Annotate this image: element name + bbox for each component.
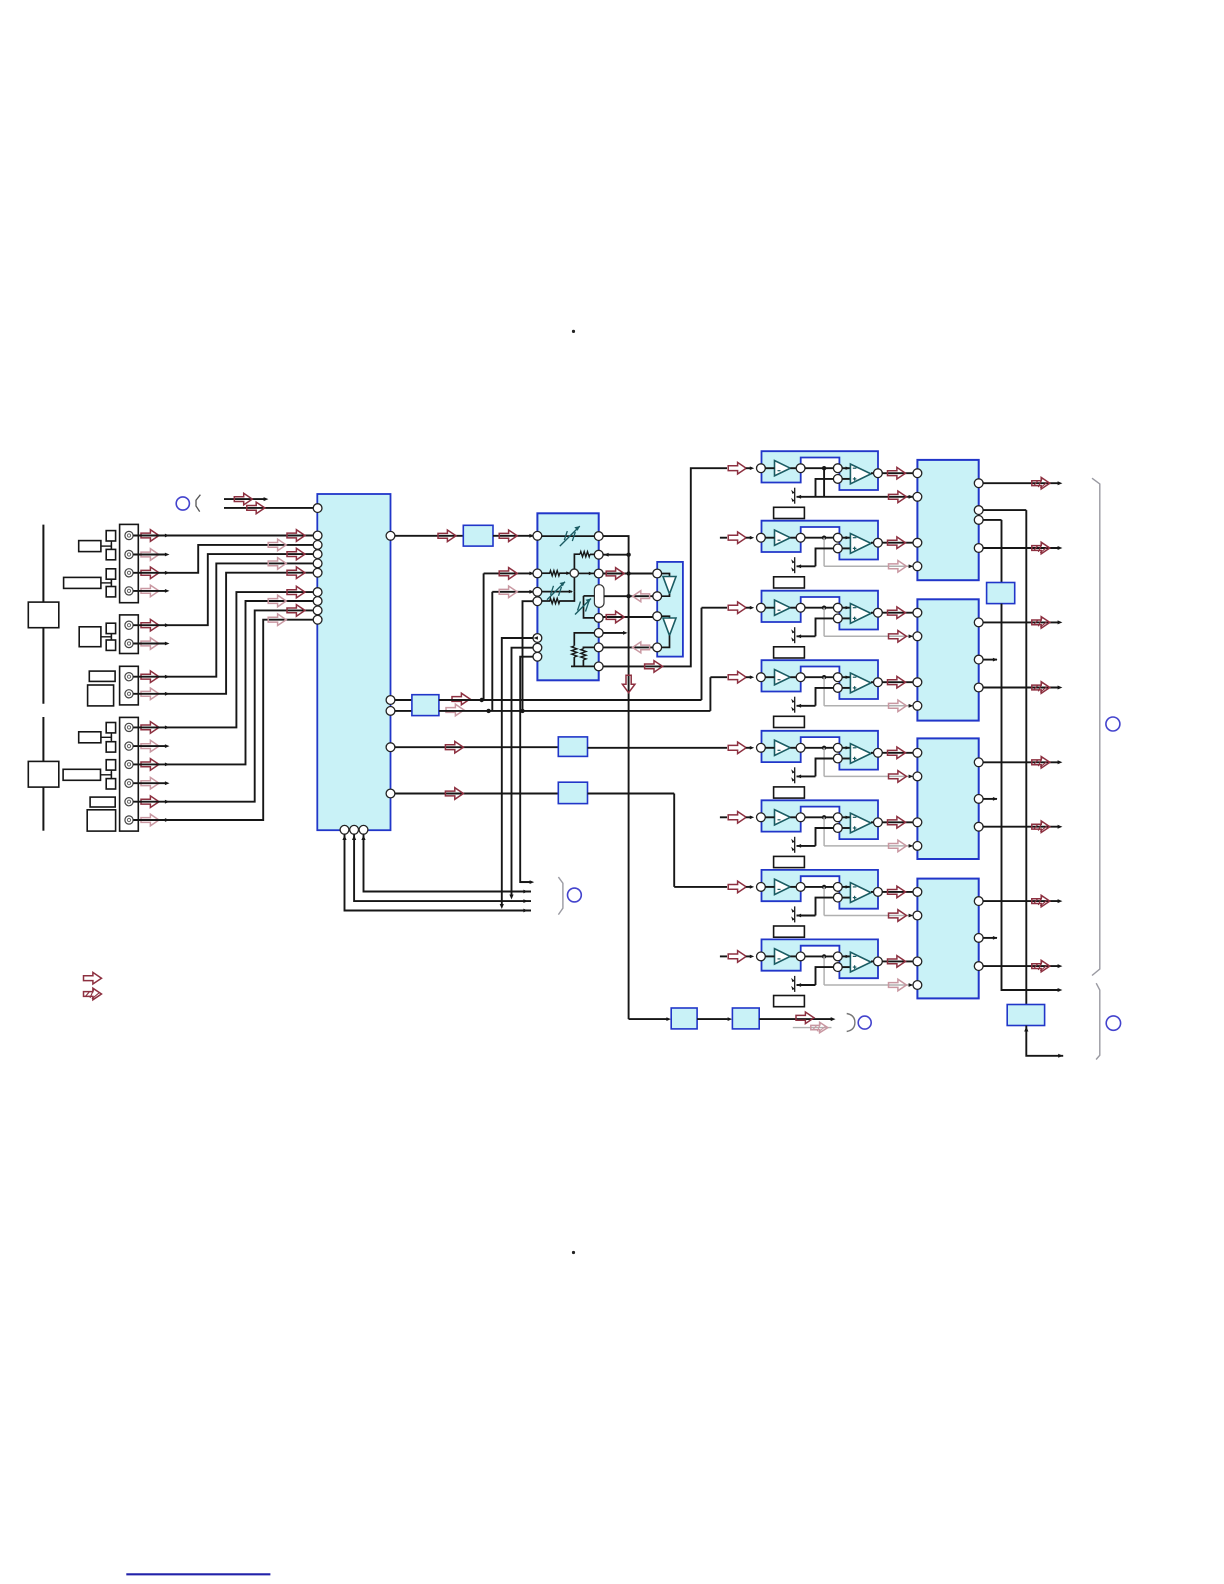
jack group B box — [120, 615, 139, 654]
ch7 wire mid — [805, 886, 833, 888]
ch1 input wire end — [746, 467, 752, 469]
ch4 mid pin — [796, 673, 805, 682]
arrow headphone return 1 — [633, 591, 650, 602]
wire rec R: selector to box G — [395, 710, 412, 712]
jack group D box — [120, 717, 139, 831]
ch6 input arrow — [728, 812, 746, 824]
ch8 buffer minus — [778, 958, 781, 960]
wire riser to ch7 input — [674, 886, 727, 888]
ch7 wire in to buffer — [765, 886, 774, 888]
label box C lower — [88, 685, 114, 706]
headphone buffer 1 output wire — [662, 594, 670, 596]
stray dot 1 — [572, 330, 575, 333]
ch4 wire amp out — [871, 681, 874, 683]
ch8 out arrow — [888, 956, 906, 968]
ch5 trim link — [797, 775, 816, 777]
ch3 main amp plus — [853, 617, 857, 619]
ch2 main amp minus — [853, 537, 857, 539]
ch7 wire amp out — [871, 891, 874, 893]
volume node down — [573, 577, 575, 591]
wire volume R5 to main line — [603, 632, 625, 634]
ch5 main amp minus — [853, 747, 857, 749]
protect riser 2 — [1025, 510, 1027, 1004]
volume left pin 7 — [533, 652, 542, 661]
arrow volume L2 — [499, 568, 517, 580]
ch4 feedback drop (gray) — [823, 677, 825, 706]
volume internal wire in-out — [542, 535, 595, 537]
ch8 wire to main amp minus — [842, 955, 850, 957]
link wire A pair1 — [110, 541, 112, 549]
ch1 trim arrowhead — [797, 495, 802, 499]
wire below relay box — [1026, 1026, 1063, 1056]
speaker connector circle lower — [1106, 1016, 1120, 1030]
arrowhead volume L5 wire — [534, 636, 538, 640]
RCA jack A2 — [125, 550, 133, 558]
ch3 riser — [701, 608, 703, 700]
ch6 main amp — [850, 813, 871, 833]
speaker arrow 6 — [1032, 821, 1050, 833]
ch7 feedback drop (gray) — [823, 887, 825, 916]
volume node up to resistor — [574, 554, 580, 569]
output IC pin ch5 bypass — [913, 772, 922, 781]
legend wire 2 arrow — [247, 502, 265, 514]
ch1 wire mid — [805, 467, 833, 469]
ch5 wire amp out — [871, 752, 874, 754]
selector right pin rec out R — [386, 707, 395, 716]
ch6 wire buffer out — [790, 816, 796, 818]
junction L4 branch — [520, 709, 524, 713]
ch8 junction — [822, 954, 826, 958]
ch8 input wire end — [746, 955, 752, 957]
ch6 junction — [822, 815, 826, 819]
ch7 trim link — [797, 915, 816, 917]
ch2 input arrow — [728, 532, 746, 544]
output IC pin ch2 bypass — [913, 562, 922, 571]
RCA jack D2 — [125, 742, 133, 750]
RCA jack B1 — [125, 621, 133, 629]
jack A1 arrow — [141, 530, 159, 542]
ch8 input stub — [720, 955, 727, 957]
volume left pin 3 — [533, 587, 542, 596]
ch2 main amp — [850, 534, 871, 554]
terminal square A pair2 upper — [106, 569, 115, 579]
ch8 noninv pin — [833, 963, 842, 972]
ch3 input wire end — [746, 607, 752, 609]
headphone pin 4 — [653, 643, 662, 652]
arrow center out — [445, 741, 463, 753]
selector input arrow r2 — [268, 539, 286, 551]
ch5 input arrow — [728, 742, 746, 754]
ch8 trim link — [797, 984, 816, 986]
label box C upper — [89, 671, 115, 681]
trigger box F2 — [732, 1008, 759, 1029]
ch3 inv input step — [816, 618, 834, 636]
ch1 out arrow — [888, 467, 906, 479]
ch3 input pin — [757, 603, 766, 612]
ch6 out arrow — [888, 817, 906, 829]
ch5 main amp — [850, 744, 871, 764]
ch8 input arrow — [728, 951, 746, 963]
jack C1 arrow — [141, 671, 159, 683]
volume attenuator symbol 3 — [575, 599, 591, 615]
ch7 input pin — [757, 883, 766, 892]
protect box E — [987, 583, 1015, 604]
terminal square D pair1 upper — [106, 723, 115, 733]
selector input arrow r5 — [287, 567, 305, 579]
ch5 trim arrowhead — [797, 775, 802, 779]
volume left pin 4 — [533, 597, 542, 606]
wire jack D5 to selector row8 — [167, 610, 314, 801]
jack C1 wire stub — [133, 676, 166, 678]
ch4 trim arrowhead — [797, 704, 802, 708]
output IC pin ch6 main — [913, 818, 922, 827]
ch1 wire buffer out — [790, 467, 796, 469]
ch5 feedback line (gray) — [824, 775, 913, 777]
ch8 trim arrowhead — [797, 983, 802, 987]
speaker wire 4 — [983, 687, 1058, 689]
ch1 wire to main amp minus — [842, 467, 850, 469]
ch6 inv pin — [833, 813, 842, 822]
ch8 wire out to IC — [882, 960, 913, 962]
label box B pair — [79, 627, 101, 647]
RCA jack A3 — [125, 569, 133, 577]
bottom chain wire 3 — [759, 1018, 831, 1020]
volume R6 ladder — [583, 647, 594, 648]
speaker wire 8 — [983, 965, 1058, 967]
headphone buffer 1 — [663, 577, 676, 595]
ch8 bypass arrowhead — [909, 983, 914, 987]
ch2 input pin — [757, 533, 766, 542]
ch4 input pin — [757, 673, 766, 682]
ch1 input pin — [757, 464, 766, 473]
ch5 feedback drop (gray) — [823, 748, 825, 777]
wire box M2 to ch7 riser — [588, 793, 675, 795]
arrow R3 out — [606, 568, 624, 580]
ch2 inv pin — [833, 533, 842, 542]
RCA jack B2 — [125, 639, 133, 647]
link wire D pair2 — [110, 770, 112, 779]
output IC C mid pin — [974, 795, 983, 804]
ch6 wire amp out — [871, 821, 874, 823]
ch6 inv input step — [816, 828, 834, 846]
RCA jack D5 — [125, 798, 133, 806]
headphone return wire 1 — [604, 595, 653, 597]
output IC pin ch5 main — [913, 748, 922, 757]
ch1 noninv pin — [833, 475, 842, 484]
label box D pair3 upper — [90, 797, 115, 807]
ch5 buffer minus — [778, 749, 781, 751]
output IC pin ch3 main — [913, 608, 922, 617]
ch6 bypass arrow — [889, 840, 907, 852]
arrow headphone return 2 — [633, 642, 650, 653]
volume R5 ladder — [574, 633, 594, 646]
ch4 wire in to buffer — [765, 676, 774, 678]
ch5 wire in to buffer — [765, 747, 774, 749]
label box D pair3 lower — [87, 810, 115, 831]
selector left pin r9 — [313, 615, 322, 624]
RCA jack C2 — [125, 690, 133, 698]
speaker arrow 5 — [1032, 757, 1050, 769]
trigger aux wire (gray) — [793, 1027, 832, 1029]
power amp block ch6 body — [762, 800, 879, 839]
output IC A aux pin 2 — [974, 516, 983, 525]
jack C2 wire stub — [133, 693, 166, 695]
ch2 wire mid — [805, 537, 833, 539]
power amp block ch8 body — [762, 939, 879, 978]
ch3 trim arrowhead — [797, 634, 802, 638]
selector bottom pin 3 — [359, 825, 368, 834]
ch1 bypass arrowhead — [909, 495, 914, 499]
trigger aux arrow — [811, 1022, 828, 1033]
ch5 wire buffer out — [790, 747, 796, 749]
jack A4 wire stub — [133, 590, 166, 592]
ch2 bypass arrowhead — [909, 564, 914, 568]
bottom chain wire 2 — [697, 1018, 728, 1020]
ch3 trimmer symbol — [794, 627, 796, 643]
ch5 gain label box — [774, 787, 805, 798]
selector input arrow r6 — [287, 586, 305, 598]
ch2 feedback drop (gray) — [823, 538, 825, 567]
selector input arrow r3 — [287, 548, 305, 560]
jack A4 arrow — [141, 585, 159, 597]
output IC B mid pin — [974, 655, 983, 664]
volume L4 branch — [523, 601, 534, 711]
ch4 main amp minus — [853, 676, 857, 678]
volume capsule left tap — [584, 595, 595, 597]
speaker arrow 4 — [1032, 682, 1050, 694]
trigger box F1 — [671, 1008, 697, 1029]
ch7 bypass arrow — [889, 910, 907, 922]
jack A1 wire stub — [133, 535, 166, 537]
arrow rec R — [446, 704, 464, 716]
ch8 wire mid — [805, 955, 833, 957]
ch6 wire mid — [805, 816, 833, 818]
output IC right pin spk5 — [974, 758, 983, 767]
wire rec L to ch3 riser — [439, 699, 702, 701]
ch4 inv input step — [816, 688, 834, 706]
speaker wire 3 — [983, 621, 1058, 623]
ch1 main amp plus — [853, 478, 857, 480]
ch6 input pin — [757, 813, 766, 822]
selector right pin out L — [386, 531, 395, 540]
headphone buffer 2 output wire — [662, 636, 670, 648]
junction main/R2 — [626, 553, 630, 557]
ch5 mid pin — [796, 743, 805, 752]
volume attenuator symbol 2 — [547, 582, 565, 600]
ch3 main amp minus — [853, 607, 857, 609]
ch6 noninv pin — [833, 824, 842, 833]
selector bottom pin 2 — [350, 825, 359, 834]
arrowhead control 1 — [523, 890, 528, 894]
speaker arrow 7 — [1032, 895, 1050, 907]
wire volume L6 down-route — [512, 648, 534, 897]
speaker arrow 3 — [1032, 617, 1050, 629]
output IC pin ch8 main — [913, 957, 922, 966]
ch3 gain label box — [774, 647, 805, 658]
jack D3 arrow — [141, 759, 159, 771]
wire jack C2 to selector row5 — [167, 573, 314, 694]
output IC D mid pin — [974, 934, 983, 943]
ch5 wire out to IC — [882, 752, 913, 754]
terminal square D pair2 lower — [106, 779, 115, 789]
ch6 mid pin — [796, 813, 805, 822]
left bus rail upper segment — [42, 525, 44, 603]
output IC pin ch4 bypass — [913, 701, 922, 710]
output IC right pin spk3 — [974, 618, 983, 627]
ch7 mid pin — [796, 883, 805, 892]
ch8 main amp minus — [853, 955, 857, 957]
volume left pin 6 — [533, 643, 542, 652]
speaker connector circle upper — [1106, 717, 1120, 731]
ch4 trimmer symbol — [794, 697, 796, 713]
ch7 trimmer symbol — [794, 906, 796, 922]
ch5 wire to main amp plus — [842, 758, 850, 760]
ch4 wire out to IC — [882, 681, 913, 683]
selector bottom wire 1 — [345, 834, 532, 910]
wire jack B1 to selector row3 — [167, 554, 314, 625]
ch6 feedback line (gray) — [824, 845, 913, 847]
RCA jack D3 — [125, 760, 133, 768]
ch6 input wire end — [746, 816, 752, 818]
input selector IC block — [317, 494, 390, 830]
ch3 main amp — [850, 604, 871, 624]
output IC right pin spk1 — [974, 479, 983, 488]
ch1 wire out to IC — [882, 472, 913, 474]
terminal square D pair1 lower — [106, 742, 115, 752]
selector right pin center out — [386, 743, 395, 752]
wire aux2 to riser — [983, 519, 1001, 521]
ch1 bypass arrow — [889, 491, 907, 503]
terminal square B pair upper — [106, 623, 115, 633]
ch5 bypass arrow — [889, 771, 907, 783]
volume attenuator symbol 1 — [560, 526, 580, 546]
arrow sub out — [445, 788, 463, 800]
arrow R4 out — [606, 611, 624, 623]
speaker arrow 1 — [1032, 477, 1050, 489]
volume left pin 1 — [533, 531, 542, 540]
jack D2 wire stub — [133, 745, 166, 747]
ch2 wire amp out — [871, 542, 874, 544]
volume L4 wire — [542, 600, 550, 602]
ch1 inv pin — [833, 464, 842, 473]
trigger connector circle — [858, 1016, 871, 1029]
RCA jack C1 — [125, 673, 133, 681]
ch7 inv input step — [816, 898, 834, 916]
ch3 mid pin — [796, 603, 805, 612]
selector input arrow r8 — [287, 605, 305, 617]
ch5 wire to main amp minus — [842, 747, 850, 749]
volume right pin 6 — [594, 643, 603, 652]
ch4 inv pin — [833, 673, 842, 682]
ch1 inv input step — [816, 479, 834, 497]
ch2 buffer minus — [778, 539, 781, 541]
ch5 input wire end — [746, 747, 752, 749]
headphone pin 1 — [653, 569, 662, 578]
label box A pair1 — [79, 541, 101, 552]
ch7 bypass arrowhead — [909, 914, 914, 918]
ch2 junction — [822, 536, 826, 540]
volume node circle — [570, 569, 578, 577]
power amp block ch1 body — [762, 451, 879, 490]
RCA jack A1 — [125, 531, 133, 539]
ch4 bypass arrowhead — [909, 704, 914, 708]
wire into volume L2 — [484, 572, 533, 574]
power amp block ch3 body — [762, 591, 879, 630]
ch2 bypass arrow — [889, 561, 907, 573]
terminal square B pair lower — [106, 640, 115, 650]
ch1 buffer minus — [778, 470, 781, 472]
ch1 bypass line — [797, 496, 914, 498]
output IC right pin spk4 — [974, 683, 983, 692]
ch2 input stub — [720, 537, 727, 539]
power amp block ch4 body — [762, 660, 879, 699]
wire volume R3 to headphone in — [603, 573, 653, 575]
ch4 wire to main amp plus — [842, 687, 850, 689]
ch8 main amp — [850, 952, 871, 972]
legend bracket — [196, 495, 200, 512]
stray dot 2 — [572, 1251, 575, 1254]
jack A3 wire stub — [133, 572, 166, 574]
ch5 output pin — [874, 748, 883, 757]
ch2 out arrow — [888, 537, 906, 549]
control bracket — [558, 877, 563, 915]
ch4 gain label box — [774, 716, 805, 727]
volume right pin 5 — [594, 629, 603, 638]
front feed wire to ch1 — [603, 468, 727, 666]
jack A3 arrow — [141, 567, 159, 579]
jack B1 arrow — [141, 619, 159, 631]
volume right pin 3 — [594, 569, 603, 578]
terminal square A pair2 lower — [106, 587, 115, 597]
ch7 feedback line (gray) — [824, 915, 913, 917]
selector left pin r2 — [313, 541, 322, 550]
selector right pin sub out — [386, 789, 395, 798]
terminal square A pair1 upper — [106, 531, 115, 541]
headphone pin 2 — [653, 592, 662, 601]
ch6 buffer minus — [778, 819, 781, 821]
ch7 wire out to IC — [882, 891, 913, 893]
ch1 wire to main amp plus — [842, 478, 850, 480]
selector left pin r8 — [313, 606, 322, 615]
arrow selector out L — [438, 530, 456, 542]
volume right pin 4 — [594, 614, 603, 623]
ch2 input wire end — [746, 537, 752, 539]
selector left pin r6 — [313, 588, 322, 597]
ch1 buffer amp — [775, 461, 791, 476]
ch1 main amp — [850, 464, 871, 484]
RCA jack D6 — [125, 816, 133, 824]
ch6 buffer amp — [775, 810, 791, 825]
ch5 wire mid — [805, 747, 833, 749]
ch4 trim link — [797, 705, 816, 707]
jack D5 wire stub — [133, 801, 166, 803]
ch7 gain label box — [774, 926, 805, 937]
output IC pin ch1 bypass — [913, 492, 922, 501]
junction rec L / volume feed — [480, 698, 484, 702]
terminal square A pair1 lower — [106, 549, 115, 559]
volume right pin 2 — [594, 550, 603, 559]
ch3 wire to main amp plus — [842, 617, 850, 619]
ch2 wire out to IC — [882, 542, 913, 544]
speaker arrow 2 — [1032, 542, 1050, 554]
ch2 main amp plus — [853, 547, 857, 549]
arrow front feed — [645, 661, 663, 673]
arrowhead control 3 — [523, 909, 528, 913]
headphone buffer 2 input wire — [662, 616, 670, 618]
output IC pin ch8 bypass — [913, 981, 922, 990]
volume node to R3 — [579, 572, 595, 574]
ch8 trimmer symbol — [794, 976, 796, 992]
